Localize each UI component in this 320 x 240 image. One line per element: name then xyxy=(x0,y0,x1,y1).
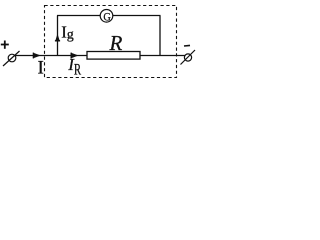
svg-text:I: I xyxy=(38,57,44,78)
svg-text:R: R xyxy=(109,31,123,55)
svg-text:G: G xyxy=(103,10,111,24)
svg-text:g: g xyxy=(67,28,74,43)
svg-text:R: R xyxy=(74,62,82,79)
